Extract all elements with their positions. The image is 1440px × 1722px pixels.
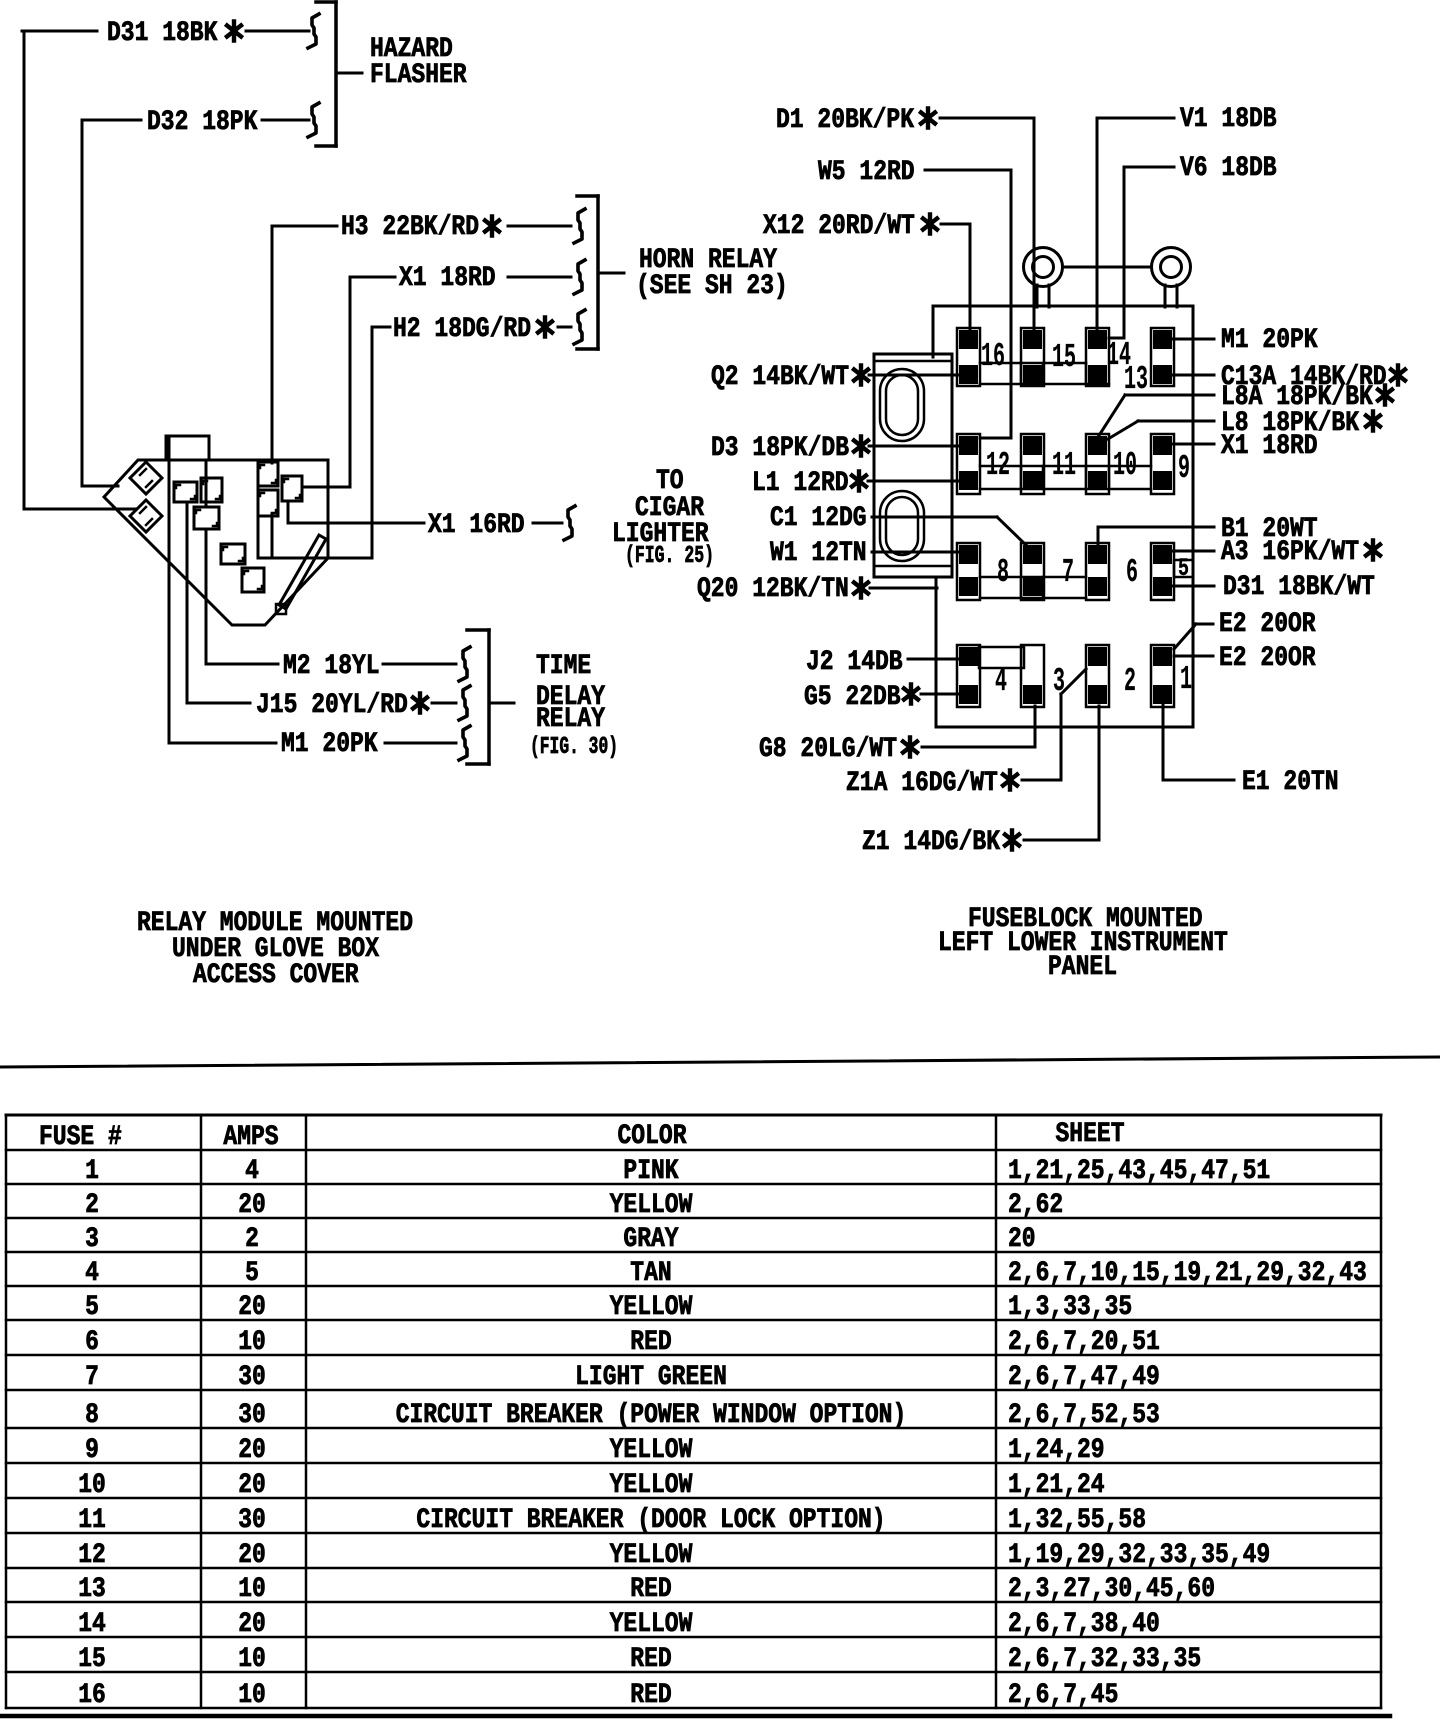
- svg-text:20: 20: [1008, 1224, 1036, 1255]
- svg-text:3: 3: [1053, 663, 1065, 700]
- svg-text:H3 22BK/RD: H3 22BK/RD: [341, 212, 479, 243]
- svg-text:C1 12DG: C1 12DG: [770, 503, 867, 534]
- svg-text:W1 12TN: W1 12TN: [770, 538, 867, 569]
- svg-text:V1 18DB: V1 18DB: [1180, 104, 1277, 135]
- svg-text:20: 20: [238, 1435, 266, 1466]
- svg-text:PINK: PINK: [623, 1156, 679, 1187]
- svg-text:10: 10: [238, 1574, 266, 1605]
- svg-text:10: 10: [238, 1644, 266, 1675]
- svg-text:15: 15: [1052, 339, 1076, 376]
- svg-text:8: 8: [85, 1400, 99, 1431]
- svg-text:1,21,25,43,45,47,51: 1,21,25,43,45,47,51: [1008, 1156, 1270, 1187]
- svg-text:2,62: 2,62: [1008, 1190, 1063, 1221]
- svg-text:RED: RED: [630, 1574, 671, 1605]
- svg-text:2: 2: [245, 1224, 259, 1255]
- svg-text:11: 11: [78, 1505, 106, 1536]
- svg-text:2: 2: [1124, 663, 1136, 700]
- svg-text:2,6,7,47,49: 2,6,7,47,49: [1008, 1362, 1160, 1393]
- svg-text:J2 14DB: J2 14DB: [806, 647, 903, 678]
- svg-text:Q2 14BK/WT: Q2 14BK/WT: [711, 362, 849, 393]
- svg-text:(SEE SH 23): (SEE SH 23): [636, 271, 788, 302]
- svg-text:20: 20: [238, 1609, 266, 1640]
- svg-text:7: 7: [85, 1362, 99, 1393]
- svg-text:10: 10: [238, 1680, 266, 1711]
- svg-text:6: 6: [85, 1327, 99, 1358]
- svg-text:8: 8: [997, 554, 1009, 591]
- svg-text:1,19,29,32,33,35,49: 1,19,29,32,33,35,49: [1008, 1540, 1270, 1571]
- svg-text:PANEL: PANEL: [1048, 952, 1117, 983]
- svg-text:TIME: TIME: [536, 651, 591, 682]
- svg-text:G5 22DB: G5 22DB: [804, 682, 901, 713]
- svg-text:9: 9: [85, 1435, 99, 1466]
- svg-text:RED: RED: [630, 1680, 671, 1711]
- svg-text:RED: RED: [630, 1327, 671, 1358]
- svg-text:X1 18RD: X1 18RD: [399, 263, 496, 294]
- svg-text:2,6,7,20,51: 2,6,7,20,51: [1008, 1327, 1160, 1358]
- svg-text:COLOR: COLOR: [618, 1121, 688, 1152]
- svg-text:H2 18DG/RD: H2 18DG/RD: [393, 314, 531, 345]
- svg-text:D31 18BK/WT: D31 18BK/WT: [1223, 572, 1375, 603]
- svg-text:1: 1: [85, 1156, 99, 1187]
- svg-text:YELLOW: YELLOW: [610, 1435, 693, 1466]
- svg-text:M1 20PK: M1 20PK: [281, 729, 378, 760]
- svg-text:D1 20BK/PK: D1 20BK/PK: [776, 105, 915, 136]
- svg-text:13: 13: [78, 1574, 106, 1605]
- svg-text:2: 2: [85, 1190, 99, 1221]
- svg-text:2,6,7,45: 2,6,7,45: [1008, 1680, 1118, 1711]
- svg-text:FUSE #: FUSE #: [39, 1122, 122, 1153]
- svg-text:2,3,27,30,45,60: 2,3,27,30,45,60: [1008, 1574, 1215, 1605]
- svg-text:30: 30: [238, 1505, 266, 1536]
- svg-text:2,6,7,52,53: 2,6,7,52,53: [1008, 1400, 1160, 1431]
- svg-text:W5 12RD: W5 12RD: [818, 157, 915, 188]
- svg-text:20: 20: [238, 1190, 266, 1221]
- svg-text:ACCESS COVER: ACCESS COVER: [193, 960, 359, 991]
- svg-text:1,32,55,58: 1,32,55,58: [1008, 1505, 1146, 1536]
- svg-text:J15 20YL/RD: J15 20YL/RD: [256, 690, 408, 721]
- svg-text:20: 20: [238, 1540, 266, 1571]
- svg-text:2,6,7,32,33,35: 2,6,7,32,33,35: [1008, 1644, 1201, 1675]
- svg-text:5: 5: [1178, 554, 1189, 583]
- svg-text:20: 20: [238, 1470, 266, 1501]
- svg-text:30: 30: [238, 1400, 266, 1431]
- svg-text:7: 7: [1062, 554, 1074, 591]
- svg-text:16: 16: [78, 1680, 106, 1711]
- svg-text:M2 18YL: M2 18YL: [283, 651, 380, 682]
- svg-text:15: 15: [78, 1644, 106, 1675]
- svg-text:Q20 12BK/TN: Q20 12BK/TN: [697, 574, 849, 605]
- svg-text:YELLOW: YELLOW: [610, 1540, 693, 1571]
- svg-text:1,3,33,35: 1,3,33,35: [1008, 1292, 1132, 1323]
- svg-text:YELLOW: YELLOW: [610, 1470, 693, 1501]
- svg-text:16: 16: [981, 338, 1005, 375]
- svg-text:YELLOW: YELLOW: [610, 1190, 693, 1221]
- svg-text:Z1A 16DG/WT: Z1A 16DG/WT: [846, 768, 998, 799]
- svg-text:M1 20PK: M1 20PK: [1221, 325, 1318, 356]
- svg-text:(FIG. 25): (FIG. 25): [625, 543, 714, 570]
- svg-text:E1 20TN: E1 20TN: [1242, 767, 1339, 798]
- svg-text:RELAY: RELAY: [536, 704, 606, 735]
- svg-text:AMPS: AMPS: [223, 1122, 278, 1153]
- svg-text:E2 20OR: E2 20OR: [1219, 609, 1316, 640]
- svg-text:13: 13: [1124, 361, 1148, 398]
- svg-text:TAN: TAN: [630, 1258, 671, 1289]
- svg-text:4: 4: [245, 1156, 259, 1187]
- svg-text:20: 20: [238, 1292, 266, 1323]
- svg-text:5: 5: [85, 1292, 99, 1323]
- svg-text:GRAY: GRAY: [623, 1224, 679, 1255]
- svg-text:4: 4: [85, 1258, 99, 1289]
- svg-text:X1 18RD: X1 18RD: [1221, 431, 1318, 462]
- svg-text:6: 6: [1126, 554, 1138, 591]
- svg-text:12: 12: [78, 1540, 106, 1571]
- svg-text:X1 16RD: X1 16RD: [428, 510, 525, 541]
- svg-text:LIGHT GREEN: LIGHT GREEN: [575, 1362, 727, 1393]
- svg-text:X12 20RD/WT: X12 20RD/WT: [763, 211, 915, 242]
- svg-text:FLASHER: FLASHER: [370, 60, 467, 91]
- svg-text:3: 3: [85, 1224, 99, 1255]
- svg-text:9: 9: [1178, 450, 1190, 487]
- svg-text:12: 12: [986, 447, 1010, 484]
- svg-text:E2 20OR: E2 20OR: [1219, 643, 1316, 674]
- svg-text:5: 5: [245, 1258, 259, 1289]
- svg-text:CIRCUIT BREAKER (POWER WINDOW: CIRCUIT BREAKER (POWER WINDOW OPTION): [396, 1400, 907, 1431]
- svg-text:Z1 14DG/BK: Z1 14DG/BK: [862, 827, 1001, 858]
- svg-text:14: 14: [78, 1609, 106, 1640]
- svg-text:YELLOW: YELLOW: [610, 1292, 693, 1323]
- svg-text:A3 16PK/WT: A3 16PK/WT: [1221, 537, 1359, 568]
- svg-text:CIRCUIT BREAKER (DOOR LOCK OPT: CIRCUIT BREAKER (DOOR LOCK OPTION): [416, 1505, 885, 1536]
- svg-text:D3 18PK/DB: D3 18PK/DB: [711, 433, 849, 464]
- svg-text:10: 10: [1113, 447, 1137, 484]
- svg-text:D32 18PK: D32 18PK: [147, 107, 258, 138]
- svg-text:1: 1: [1180, 661, 1192, 698]
- svg-text:4: 4: [995, 663, 1007, 700]
- svg-text:G8 20LG/WT: G8 20LG/WT: [759, 734, 897, 765]
- svg-text:11: 11: [1052, 447, 1076, 484]
- svg-text:2,6,7,10,15,19,21,29,32,43: 2,6,7,10,15,19,21,29,32,43: [1008, 1258, 1367, 1289]
- svg-text:RED: RED: [630, 1644, 671, 1675]
- svg-text:SHEET: SHEET: [1056, 1119, 1125, 1150]
- svg-text:10: 10: [78, 1470, 106, 1501]
- svg-text:D31 18BK: D31 18BK: [107, 18, 218, 49]
- svg-text:10: 10: [238, 1327, 266, 1358]
- svg-text:L1 12RD: L1 12RD: [752, 468, 849, 499]
- svg-text:2,6,7,38,40: 2,6,7,38,40: [1008, 1609, 1160, 1640]
- svg-text:1,24,29: 1,24,29: [1008, 1435, 1105, 1466]
- svg-text:30: 30: [238, 1362, 266, 1393]
- svg-text:(FIG. 30): (FIG. 30): [530, 734, 618, 761]
- svg-text:V6 18DB: V6 18DB: [1180, 153, 1277, 184]
- svg-text:YELLOW: YELLOW: [610, 1609, 693, 1640]
- svg-text:1,21,24: 1,21,24: [1008, 1470, 1105, 1501]
